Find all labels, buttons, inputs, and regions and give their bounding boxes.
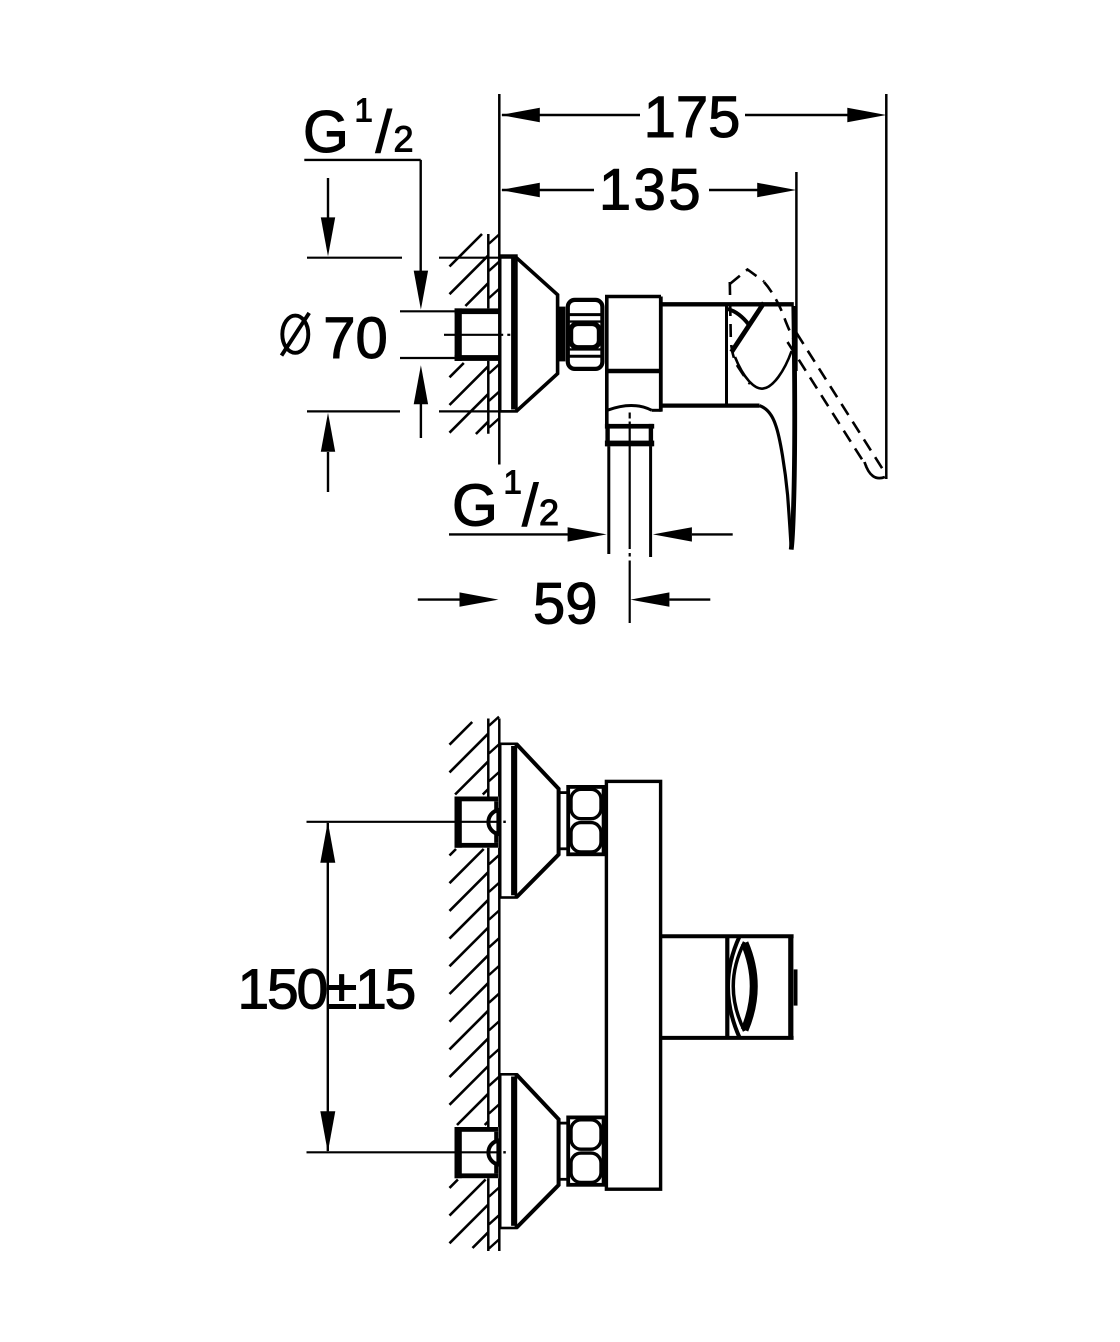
- svg-text:/: /: [376, 99, 393, 165]
- svg-text:1: 1: [504, 464, 522, 501]
- svg-text:150±15: 150±15: [238, 958, 415, 1022]
- svg-text:59: 59: [533, 572, 598, 637]
- svg-text:/: /: [522, 472, 539, 538]
- svg-text:135: 135: [599, 158, 703, 223]
- svg-text:175: 175: [644, 85, 741, 150]
- svg-text:70: 70: [323, 306, 388, 371]
- svg-text:G: G: [303, 99, 349, 165]
- svg-text:1: 1: [355, 92, 373, 129]
- svg-text:2: 2: [394, 119, 414, 160]
- svg-text:2: 2: [539, 492, 559, 533]
- svg-text:G: G: [452, 472, 498, 538]
